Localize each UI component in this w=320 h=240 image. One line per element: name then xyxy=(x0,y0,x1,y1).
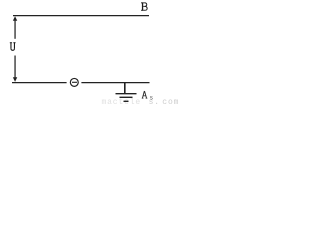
background xyxy=(0,0,180,105)
U label xyxy=(10,42,16,50)
source symbol: circled minus xyxy=(70,78,78,86)
node B label xyxy=(141,2,147,10)
ground stub wire xyxy=(124,83,126,94)
minus sign inside circle xyxy=(72,81,77,83)
ground bar 2 xyxy=(120,96,133,98)
wire top rail (node B rail) xyxy=(13,15,149,17)
svg-text:s: s xyxy=(150,94,154,101)
svg-text:com: com xyxy=(162,98,179,105)
node A label xyxy=(142,91,148,99)
wire bottom rail left segment xyxy=(12,82,67,84)
ground bar 1 xyxy=(116,93,137,95)
svg-text:mactele: mactele xyxy=(102,98,142,105)
wire bottom rail right segment xyxy=(81,82,149,84)
voltage arrow U upper segment with up arrowhead xyxy=(13,16,17,39)
voltage arrow U lower segment with down arrowhead xyxy=(13,56,17,82)
ground bar 3 xyxy=(124,100,129,102)
